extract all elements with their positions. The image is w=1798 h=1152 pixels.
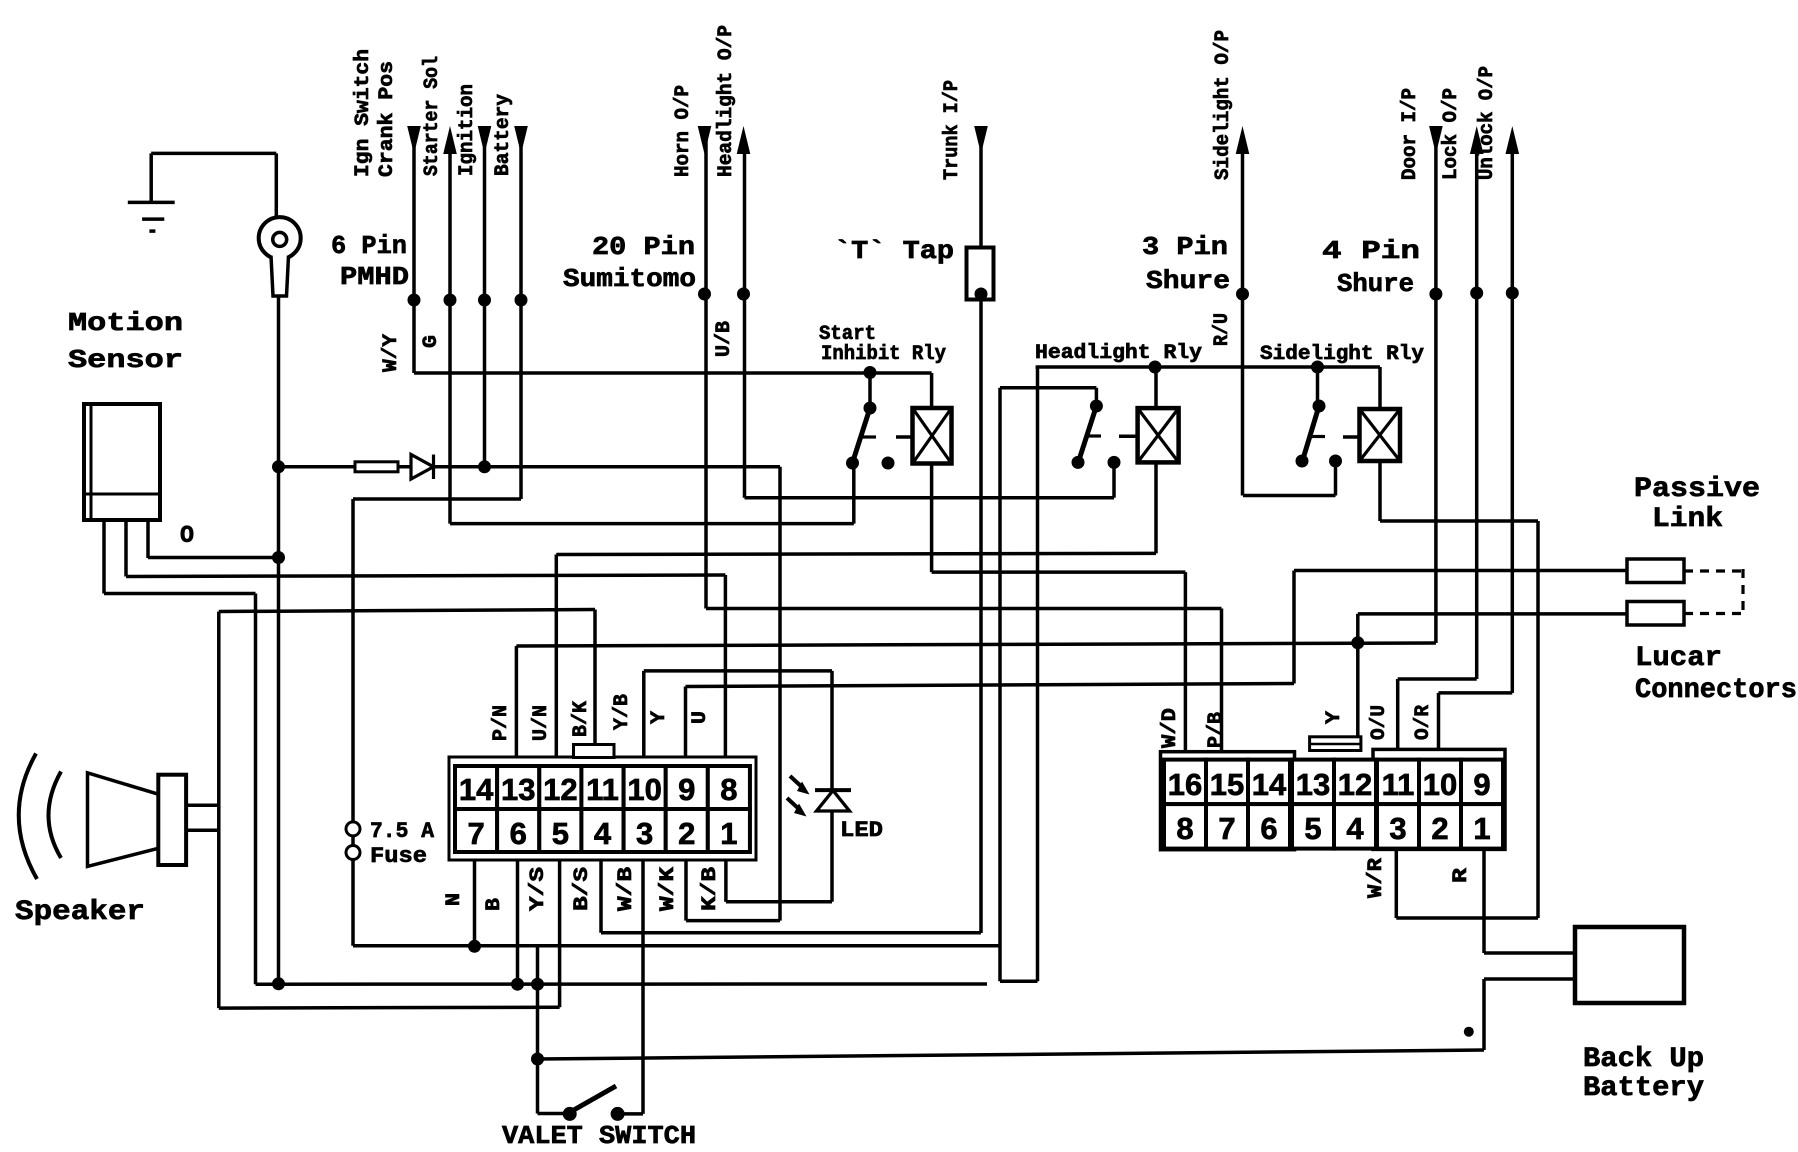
svg-text:12: 12 bbox=[543, 772, 577, 807]
wire sidelight NO return bbox=[1243, 494, 1336, 498]
wire headlight coil top link bbox=[1154, 367, 1158, 408]
wire speaker terminal top bbox=[186, 804, 219, 808]
svg-text:U/B: U/B bbox=[713, 321, 736, 357]
wire W/D row bbox=[932, 570, 1186, 574]
svg-text:10: 10 bbox=[1423, 767, 1457, 802]
wire O/R riser bbox=[1437, 693, 1441, 751]
svg-text:4: 4 bbox=[1346, 811, 1364, 846]
svg-text:Back Up: Back Up bbox=[1583, 1044, 1704, 1075]
wire key line vertical bbox=[277, 296, 281, 984]
speaker sound arc outer bbox=[19, 754, 37, 880]
node sidelight pivot bbox=[1313, 400, 1326, 413]
node R/U junction bbox=[1236, 288, 1249, 301]
node valet left contact bbox=[563, 1107, 577, 1121]
tab mid line bbox=[1310, 743, 1361, 746]
dashed link bottom bbox=[1684, 612, 1744, 615]
wire O/U riser bbox=[1396, 679, 1400, 751]
svg-text:6: 6 bbox=[1260, 811, 1277, 846]
ground bar 3 bbox=[149, 229, 155, 233]
LED ray arrow 1 bbox=[790, 776, 810, 795]
svg-text:8: 8 bbox=[720, 772, 737, 807]
sidelight relay arm tick bbox=[1310, 435, 1325, 438]
headlight switch arm bbox=[1079, 406, 1096, 460]
svg-text:14: 14 bbox=[1252, 767, 1287, 802]
svg-text:PMHD: PMHD bbox=[340, 262, 409, 292]
wire Y riser bbox=[684, 687, 688, 758]
14-pin connector cells with pin numbers bbox=[455, 766, 497, 809]
arrow Ignition (down) bbox=[478, 126, 492, 154]
wire headlight pivot net vertical bbox=[998, 388, 1002, 981]
svg-text:Battery: Battery bbox=[492, 94, 515, 176]
motion sensor inner bottom line bbox=[84, 493, 160, 496]
svg-text:W/Y: W/Y bbox=[380, 334, 403, 372]
arrow Battery (down) bbox=[514, 126, 528, 154]
svg-text:1: 1 bbox=[720, 816, 737, 851]
wire start relay stub bbox=[896, 435, 913, 439]
start inhibit relay coil box bbox=[913, 408, 952, 464]
wire Y-tab vertical bbox=[1356, 614, 1360, 738]
wire sidelight switch link bbox=[1316, 367, 1320, 406]
wire K/B riser to LED bbox=[830, 811, 834, 902]
svg-text:7.5 A: 7.5 A bbox=[370, 819, 435, 844]
svg-text:Link: Link bbox=[1652, 504, 1723, 535]
wire K/B row bbox=[726, 900, 832, 904]
wire Trunk I/P vertical upper bbox=[979, 140, 983, 248]
fuse holder circle top bbox=[346, 822, 360, 836]
wire B riser bbox=[516, 860, 520, 984]
svg-text:16: 16 bbox=[1168, 767, 1202, 802]
wire Y/S riser bbox=[558, 860, 562, 1007]
wire W/R long vertical bbox=[1536, 521, 1540, 918]
wire down to key bbox=[275, 153, 279, 217]
wire W/D riser to pin 16 bbox=[1184, 572, 1188, 752]
svg-text:O: O bbox=[180, 523, 194, 550]
wire U/N riser bbox=[555, 555, 559, 758]
motion sensor stub 1 bbox=[102, 520, 106, 594]
wire Sidelight O/P (R/U) vertical bbox=[1241, 140, 1245, 496]
arrow Ign Switch Crank Pos (input, down) bbox=[407, 126, 421, 154]
16-pin group B outline bbox=[1373, 749, 1505, 849]
svg-text:Sensor: Sensor bbox=[68, 345, 183, 375]
start relay coil X diagonal 2 bbox=[913, 408, 952, 464]
svg-text:Trunk I/P: Trunk I/P bbox=[941, 80, 964, 180]
svg-text:11: 11 bbox=[586, 772, 619, 807]
wire ground top horizontal bbox=[151, 152, 276, 156]
LED cathode bar bbox=[815, 788, 851, 792]
node Battery junction bbox=[515, 294, 528, 307]
svg-text:8: 8 bbox=[1176, 811, 1193, 846]
svg-text:W/B: W/B bbox=[615, 867, 638, 911]
svg-text:5: 5 bbox=[552, 816, 569, 851]
wire bus 984 bbox=[256, 982, 988, 986]
svg-text:7: 7 bbox=[1218, 811, 1235, 846]
svg-text:13: 13 bbox=[1296, 767, 1330, 802]
speaker horn cone bbox=[88, 773, 159, 867]
dashed link top bbox=[1684, 569, 1744, 572]
svg-text:LED: LED bbox=[840, 818, 883, 843]
svg-text:Sidelight O/P: Sidelight O/P bbox=[1212, 30, 1235, 180]
svg-text:P/B: P/B bbox=[1205, 712, 1228, 748]
svg-text:20 Pin: 20 Pin bbox=[592, 232, 695, 262]
svg-text:Shure: Shure bbox=[1146, 266, 1230, 296]
wire valet bottom left bbox=[538, 1112, 570, 1116]
svg-text:12: 12 bbox=[1338, 767, 1372, 802]
node key/diode junction bbox=[272, 460, 285, 473]
lucar connector 1 bbox=[1627, 559, 1684, 583]
svg-text:Unlock O/P: Unlock O/P bbox=[1476, 66, 1499, 180]
svg-text:Y/S: Y/S bbox=[527, 867, 550, 911]
wire speaker terminal bottom bbox=[186, 829, 219, 833]
svg-text:`T` Tap: `T` Tap bbox=[834, 236, 954, 266]
wire headlight stub bbox=[1119, 435, 1138, 439]
wire diode net vertical bbox=[778, 467, 782, 921]
svg-text:14: 14 bbox=[459, 772, 494, 807]
wire relay top row bbox=[1036, 365, 1380, 369]
svg-text:6 Pin: 6 Pin bbox=[331, 231, 407, 261]
svg-text:9: 9 bbox=[1473, 767, 1490, 802]
svg-text:3 Pin: 3 Pin bbox=[1142, 232, 1228, 262]
key ring outer bbox=[259, 217, 301, 259]
arrow Horn O/P (down) bbox=[698, 126, 712, 154]
node start relay top junction bbox=[864, 366, 877, 379]
sidelight coil X diagonal 1 bbox=[1360, 409, 1401, 461]
node headlight pivot bbox=[1090, 400, 1103, 413]
headlight coil X diagonal 1 bbox=[1138, 408, 1179, 462]
wire Ignition vertical bbox=[483, 140, 487, 467]
wire Battery vertical bbox=[519, 140, 523, 499]
sidelight switch arm bbox=[1303, 406, 1319, 459]
headlight relay coil box bbox=[1138, 408, 1179, 462]
wire Unlock O/P vertical bbox=[1511, 140, 1515, 693]
wire diode row horizontal bbox=[279, 465, 781, 469]
svg-text:11: 11 bbox=[1382, 767, 1415, 802]
svg-text:6: 6 bbox=[510, 816, 527, 851]
wire start relay coil top link bbox=[930, 373, 934, 408]
svg-text:R/U: R/U bbox=[1211, 313, 1234, 346]
wire lucar1 row bbox=[1294, 569, 1627, 573]
node bus E / Y-wire junction bbox=[1351, 636, 1364, 649]
svg-text:Sidelight Rly: Sidelight Rly bbox=[1260, 343, 1424, 366]
wire sidelight coil bottom row bbox=[1380, 519, 1538, 523]
sidelight relay coil box bbox=[1360, 409, 1401, 461]
wire W/D coil drop bbox=[930, 464, 934, 573]
wire sidelight coil top link bbox=[1378, 367, 1382, 409]
tab above pin 13 (16-pin) bbox=[1310, 737, 1361, 751]
node valet drop junction bbox=[531, 978, 544, 991]
diode triangle bbox=[411, 455, 434, 480]
svg-text:G: G bbox=[420, 335, 443, 348]
wire W/R bottom row bbox=[1396, 916, 1538, 920]
wire lucar1 riser bbox=[1292, 571, 1296, 684]
svg-text:Speaker: Speaker bbox=[15, 897, 145, 928]
wire bus C bbox=[104, 592, 256, 596]
wire P/B riser to pin 15 bbox=[1220, 609, 1224, 753]
wire W/K row bbox=[686, 919, 780, 923]
wire R to battery bbox=[1484, 951, 1575, 955]
start relay arm tick bbox=[861, 435, 876, 438]
wire bus C drop bbox=[254, 594, 258, 985]
svg-text:Y: Y bbox=[648, 711, 671, 724]
arrow Lock O/P (up) bbox=[1470, 126, 1484, 154]
svg-text:Ignition: Ignition bbox=[456, 84, 479, 176]
node valet drop / battery bus junction bbox=[531, 1053, 544, 1066]
svg-text:U/N: U/N bbox=[530, 705, 553, 741]
wire O/R row bbox=[1439, 691, 1513, 695]
wire P/N riser bbox=[515, 646, 519, 757]
node start relay pivot bbox=[864, 402, 877, 415]
svg-text:Y: Y bbox=[1323, 711, 1346, 724]
node small mark near battery bbox=[1464, 1027, 1474, 1037]
node headlight coil top junction bbox=[1149, 361, 1162, 374]
svg-text:U: U bbox=[689, 711, 712, 724]
wire sidelight NO riser bbox=[1334, 461, 1338, 496]
wire Y bus (pin9 to Lucar) bbox=[686, 684, 1295, 687]
wire battery negative bus bbox=[538, 1050, 1485, 1059]
wire bus D bbox=[219, 610, 595, 612]
svg-text:P/N: P/N bbox=[490, 705, 513, 741]
wire W/Y row horizontal bbox=[414, 371, 932, 375]
lucar connector 2 bbox=[1627, 602, 1684, 626]
svg-text:3: 3 bbox=[636, 816, 653, 851]
wire battery negative link bbox=[1484, 977, 1575, 981]
fuse holder circle bottom bbox=[346, 846, 360, 860]
wire G riser to contact bbox=[852, 463, 856, 524]
svg-text:10: 10 bbox=[627, 772, 661, 807]
svg-text:4 Pin: 4 Pin bbox=[1322, 236, 1420, 266]
wire valet bottom right bbox=[618, 1112, 643, 1116]
wire K/B riser bbox=[724, 860, 728, 902]
headlight coil X diagonal 2 bbox=[1138, 408, 1179, 462]
svg-text:Passive: Passive bbox=[1634, 474, 1760, 505]
wire start relay switch link bbox=[868, 373, 872, 409]
node key line bottom junction bbox=[272, 977, 285, 990]
svg-text:9: 9 bbox=[678, 772, 695, 807]
node headlight NO contact bbox=[1108, 456, 1121, 469]
node Unlock junction bbox=[1506, 287, 1519, 300]
svg-text:Battery: Battery bbox=[1583, 1073, 1704, 1104]
sidelight coil X diagonal 2 bbox=[1360, 409, 1401, 461]
16-pin group A outline bbox=[1161, 752, 1295, 850]
svg-text:Y/B: Y/B bbox=[611, 694, 634, 730]
arrow Starter Sol (output, up) bbox=[443, 126, 457, 154]
node valet right contact bbox=[611, 1107, 625, 1121]
wire sidelight stub bbox=[1343, 435, 1360, 439]
start relay switch arm bbox=[853, 408, 870, 461]
svg-text:K/B: K/B bbox=[699, 867, 722, 911]
svg-text:W/K: W/K bbox=[657, 867, 680, 911]
node start relay contact bbox=[846, 457, 859, 470]
back up battery box bbox=[1575, 927, 1684, 1003]
svg-text:Ign Switch: Ign Switch bbox=[352, 49, 375, 177]
node Door junction bbox=[1429, 288, 1442, 301]
valet switch arm bbox=[572, 1086, 616, 1111]
svg-text:O/R: O/R bbox=[1412, 705, 1435, 740]
svg-text:Motion: Motion bbox=[68, 308, 183, 338]
wire lucar2 row bbox=[1358, 612, 1627, 616]
16-pin connector cells with pin numbers bbox=[1164, 760, 1206, 805]
wire battery negative drop bbox=[1482, 979, 1486, 1050]
svg-text:5: 5 bbox=[1304, 811, 1321, 846]
svg-text:Lucar: Lucar bbox=[1635, 643, 1722, 674]
arrow Sidelight O/P (up) bbox=[1236, 126, 1250, 154]
wire valet drop bbox=[536, 946, 540, 1114]
node headlight contact bbox=[1072, 456, 1085, 469]
wire ground riser bbox=[149, 153, 153, 202]
svg-text:Headlight Rly: Headlight Rly bbox=[1035, 342, 1202, 365]
svg-text:Sumitomo: Sumitomo bbox=[563, 264, 696, 294]
wire U riser bbox=[724, 575, 728, 757]
node bus A / key junction bbox=[272, 551, 285, 564]
wire bus B (U wire to pin 8) bbox=[126, 575, 725, 577]
wire Lock O/P vertical bbox=[1475, 140, 1479, 679]
arrow Door I/P (down) bbox=[1429, 126, 1443, 154]
wire U/B row horizontal bbox=[745, 496, 1115, 500]
dashed link vertical bbox=[1741, 569, 1744, 615]
wire W/B riser bbox=[641, 860, 645, 1114]
wire Trunk vertical below T-tap bbox=[979, 300, 983, 934]
wire Door I/P vertical bbox=[1434, 140, 1438, 643]
svg-text:Inhibit Rly: Inhibit Rly bbox=[821, 343, 946, 366]
node start relay NO contact bbox=[882, 457, 895, 470]
svg-text:4: 4 bbox=[594, 816, 612, 851]
svg-text:3: 3 bbox=[1389, 811, 1406, 846]
wire G row horizontal bbox=[450, 522, 854, 526]
svg-text:O/U: O/U bbox=[1368, 705, 1391, 740]
svg-text:W/D: W/D bbox=[1159, 708, 1182, 748]
20-pin Sumitomo connector outline bbox=[449, 757, 756, 860]
wire Ign Switch Crank Pos (W/Y) vertical bbox=[412, 140, 416, 373]
wire bus E (P/N to Door) bbox=[516, 643, 1436, 646]
node sidelight top junction bbox=[1311, 361, 1324, 374]
svg-text:B/S: B/S bbox=[571, 867, 594, 911]
svg-text:1: 1 bbox=[1473, 811, 1490, 846]
wire Headlight O/P (U/B) vertical bbox=[743, 140, 747, 498]
node Horn junction bbox=[698, 288, 711, 301]
wire headlight pivot link bbox=[1095, 388, 1099, 406]
ground bar 2 bbox=[142, 217, 164, 221]
wire headlight NO riser bbox=[1112, 462, 1116, 497]
wire W/K riser bbox=[684, 860, 688, 921]
node Ignition junction bbox=[478, 294, 491, 307]
node Lock junction bbox=[1470, 287, 1483, 300]
svg-text:7: 7 bbox=[467, 816, 484, 851]
svg-text:15: 15 bbox=[1210, 767, 1244, 802]
svg-text:W/R: W/R bbox=[1365, 858, 1388, 898]
wire fuse bottom row (bus 947) bbox=[353, 944, 1000, 948]
wire bus D2 (Horn to P/B) bbox=[706, 607, 1222, 611]
wire B/S riser bbox=[599, 860, 603, 933]
wire trunk row bbox=[601, 931, 981, 935]
node sidelight NO contact bbox=[1329, 455, 1342, 468]
node B riser junction bbox=[511, 978, 524, 991]
node sidelight contact bbox=[1296, 455, 1309, 468]
node Trunk junction bbox=[975, 288, 988, 301]
wire Y/B riser bbox=[642, 671, 646, 757]
wire big-rect bottom bbox=[219, 1005, 560, 1009]
svg-text:2: 2 bbox=[1431, 811, 1448, 846]
wire headlight U-bottom bbox=[1000, 979, 1038, 983]
svg-text:B: B bbox=[483, 898, 506, 911]
wire LED anode riser bbox=[830, 671, 834, 790]
wire R riser (pin 1) bbox=[1482, 849, 1486, 953]
wire W/R riser to pin 3 bbox=[1395, 849, 1399, 918]
wire Horn O/P vertical bbox=[704, 140, 708, 609]
small box above pin 11 bbox=[574, 745, 615, 758]
wire sidelight coil bottom drop bbox=[1378, 461, 1382, 521]
node U/B junction bbox=[737, 288, 750, 301]
svg-text:Starter Sol: Starter Sol bbox=[421, 56, 444, 176]
wire headlight pivot row bbox=[1000, 386, 1096, 390]
wire headlight coil bottom drop bbox=[1154, 462, 1158, 553]
svg-text:Horn O/P: Horn O/P bbox=[672, 85, 695, 177]
node ignition/diode junction bbox=[478, 460, 491, 473]
wire N riser bbox=[473, 860, 477, 946]
wire O/U row bbox=[1398, 677, 1477, 681]
wire bus A left (to key line) bbox=[148, 556, 279, 560]
svg-text:2: 2 bbox=[678, 816, 695, 851]
arrow Headlight O/P (up) bbox=[737, 126, 751, 154]
motion sensor inner left line bbox=[90, 404, 93, 520]
fuse body bbox=[355, 462, 398, 472]
LED triangle bbox=[817, 791, 850, 812]
svg-text:B/K: B/K bbox=[570, 701, 593, 737]
key stem bbox=[271, 256, 289, 296]
svg-text:13: 13 bbox=[501, 772, 535, 807]
motion sensor stub 3 bbox=[146, 520, 150, 558]
svg-text:N: N bbox=[443, 893, 466, 906]
wire Y/B top row bbox=[644, 669, 832, 673]
wire battery turn horizontal bbox=[353, 497, 521, 501]
key ring inner bbox=[273, 232, 287, 246]
start relay coil X diagonal 1 bbox=[913, 408, 952, 464]
arrow Trunk I/P (down) bbox=[974, 126, 988, 154]
svg-text:R: R bbox=[1450, 868, 1473, 883]
svg-text:Shure: Shure bbox=[1337, 269, 1414, 299]
svg-text:Door I/P: Door I/P bbox=[1399, 88, 1422, 180]
svg-text:VALET SWITCH: VALET SWITCH bbox=[502, 1121, 696, 1151]
node G junction bbox=[444, 294, 457, 307]
speaker driver body bbox=[158, 775, 186, 865]
svg-text:Fuse: Fuse bbox=[370, 844, 427, 869]
headlight relay arm tick bbox=[1088, 434, 1101, 437]
wire Starter Sol (G) vertical bbox=[448, 140, 452, 524]
svg-text:Connectors: Connectors bbox=[1635, 675, 1797, 706]
speaker sound arc inner bbox=[49, 772, 62, 859]
arrow Unlock O/P (up) bbox=[1506, 126, 1520, 154]
wire bus A right (to headlight coil) bbox=[556, 553, 1156, 554]
wire battery/fuse drop bbox=[351, 499, 355, 946]
LED ray arrow 2 bbox=[787, 798, 807, 817]
wire B/K riser bbox=[593, 610, 597, 745]
motion sensor box bbox=[84, 404, 160, 520]
T-tap body bbox=[967, 248, 994, 300]
ground bar 1 bbox=[128, 201, 175, 205]
wire headlight top-left drop bbox=[1036, 367, 1040, 981]
svg-text:Headlight O/P: Headlight O/P bbox=[715, 25, 738, 177]
svg-text:Lock O/P: Lock O/P bbox=[1440, 88, 1463, 180]
svg-text:Crank Pos: Crank Pos bbox=[376, 61, 399, 177]
node W/Y junction bbox=[408, 294, 421, 307]
wire big-rect left side bbox=[217, 612, 221, 1009]
diode cathode bar bbox=[432, 455, 435, 480]
motion sensor stub 2 bbox=[124, 520, 128, 577]
node N riser junction bbox=[468, 940, 481, 953]
